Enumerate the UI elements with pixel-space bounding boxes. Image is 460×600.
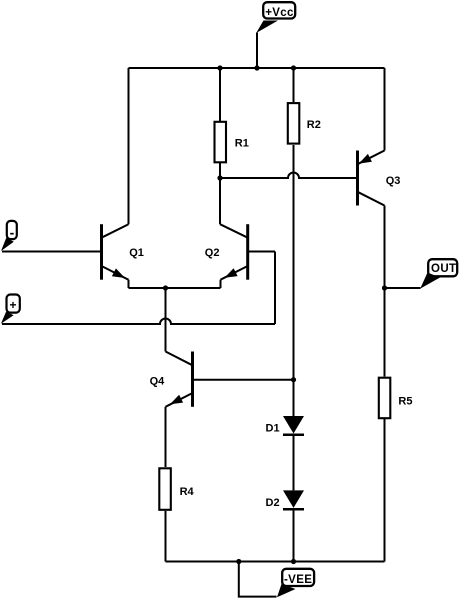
wire Q1 collector vertical [128,68,130,224]
resistor R5 [379,378,391,419]
wire OUT node to R5 [384,288,386,377]
svg-text:Q1: Q1 [129,247,144,259]
transistor Q2 collector diagonal [220,224,248,238]
transistor Q3 emitter diagonal [358,151,385,165]
net flag OUT tail [420,273,440,289]
wire Q4 emitter lead to R4 [165,407,167,467]
net flag plus input box [7,295,20,313]
node R2 top junction [291,65,296,70]
wire Q2 emitter to common node [166,287,221,289]
wire +Vcc flag lead [256,33,258,69]
svg-text:D1: D1 [266,422,280,434]
node Q4 base diode junction [291,377,296,382]
wire D1 to D2 [293,435,295,491]
wire Q2 base stub [248,251,275,253]
transistor Q2 emitter arrow (NPN) [225,268,238,278]
transistor Q3 base bar [356,151,359,206]
diode D1 triangle [283,416,304,434]
svg-text:Q3: Q3 [386,175,401,187]
power flag -VEE box [282,569,314,586]
node R1 top junction [217,65,222,70]
wire R1 top lead [219,68,221,121]
svg-text:-: - [10,225,15,241]
resistor R4 [159,468,171,510]
wire R2 top lead [293,68,295,102]
wire D2 to -VEE rail [293,509,295,561]
power flag +Vcc box [263,2,295,18]
resistor R1 [215,122,227,163]
svg-text:R2: R2 [307,119,321,131]
resistor R2 [288,103,300,144]
transistor Q4 emitter arrow (NPN) [170,395,183,405]
wire R4 bottom lead [165,511,167,562]
transistor Q2 base bar [246,224,249,280]
wire -VEE flag lead [239,562,277,597]
wire Q3 emitter vertical [384,68,386,151]
wire Q1 emitter lead [128,280,130,288]
svg-text:R4: R4 [180,486,195,498]
svg-text:Q4: Q4 [150,376,166,388]
wire non-inverting input with hop over tail wire [2,319,275,325]
svg-text:R1: R1 [235,138,249,150]
wire Q3 collector vertical to OUT node [384,206,386,289]
net flag plus input tail [1,312,14,324]
wire R1 bottom lead [219,163,221,178]
wire OUT stub [385,287,421,289]
node common emitter junction [163,285,168,290]
transistor Q3 collector diagonal [358,192,385,206]
svg-text:R5: R5 [398,396,412,408]
transistor Q3 emitter arrow (PNP) [359,154,372,164]
node VEE tap junction [236,559,241,564]
diode D1 cathode bar [283,434,304,437]
node Vcc tap junction [254,65,259,70]
transistor Q1 emitter arrow (NPN) [112,268,125,278]
net flag minus input box [7,221,17,239]
transistor Q4 emitter diagonal [166,393,193,407]
node OUT junction [382,285,387,290]
svg-text:Q2: Q2 [205,247,220,259]
wire inverting input to Q1 base [2,251,102,253]
wire Q2 emitter lead [220,280,222,288]
transistor Q4 collector diagonal [166,352,193,366]
transistor Q2 emitter diagonal [221,266,248,280]
transistor Q1 emitter diagonal [102,266,129,280]
wire bottom -VEE rail [166,561,385,563]
diode D2 triangle [283,490,304,508]
svg-text:D2: D2 [266,497,280,509]
wire Q4 base to diode column [193,379,294,381]
power flag +Vcc tail [256,21,278,34]
transistor Q4 base bar [191,352,194,407]
transistor Q1 base bar [100,224,103,280]
svg-text:+: + [9,298,16,312]
svg-text:OUT: OUT [431,263,456,275]
node R1 bottom junction [217,175,222,180]
wire Q3 base with hop over R2 column [220,173,356,179]
wire Q2 collector vertical [219,178,221,224]
wire Q1 emitter to common node [129,287,166,289]
power flag -VEE tail [277,584,296,597]
wire common node to Q4 collector [165,288,167,352]
svg-text:-VEE: -VEE [284,574,312,586]
net flag OUT box [428,259,457,276]
net flag minus input tail [1,238,14,251]
wire R2 bottom to Q4 base junction [293,145,295,380]
transistor Q1 collector diagonal [102,224,129,238]
node D2 rail junction [291,559,296,564]
wire R5 bottom to -VEE rail [384,419,386,562]
wire top +Vcc rail [129,67,385,69]
diode D2 cathode bar [283,508,304,511]
wire Q2 base down to plus input [274,252,276,325]
svg-text:+Vcc: +Vcc [265,7,294,19]
wire diode column junction to D1 [293,380,295,416]
